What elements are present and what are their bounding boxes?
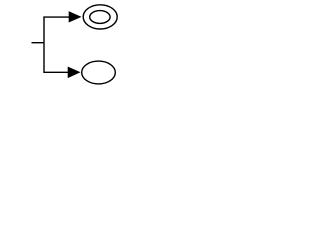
wire: top branch (43, 16, 70, 18)
wire: bottom branch (43, 71, 68, 73)
arrowhead: bottom edge (68, 67, 80, 78)
state: inner ellipse of accepting state (90, 11, 110, 24)
wire: root stub (32, 42, 45, 44)
wire: vertical trunk (43, 17, 45, 73)
state: outer ellipse of accepting state (83, 5, 117, 29)
state: plain ellipse (82, 61, 116, 84)
arrowhead: top edge (69, 12, 81, 23)
